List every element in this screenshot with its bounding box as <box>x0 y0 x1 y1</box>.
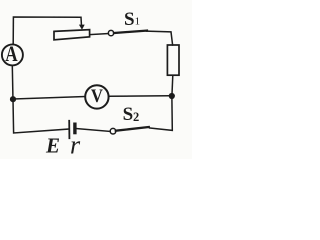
svg-text:E: E <box>45 133 60 157</box>
svg-text:S: S <box>123 104 134 125</box>
rheostat slider arrowhead <box>79 25 85 30</box>
wire voltmeter to node B <box>109 95 169 98</box>
wire top run: left riser, top wire, slider drop <box>13 17 81 44</box>
wire rheostat to S1 <box>90 34 109 35</box>
svg-text:S: S <box>124 9 135 30</box>
wire node B down right rail to bottom-right corner, left to S2 blade <box>150 99 173 131</box>
switch S2 contact <box>110 128 116 134</box>
switch S1 contact <box>108 30 113 35</box>
node A junction dot <box>10 96 16 102</box>
svg-text:V: V <box>91 85 103 106</box>
svg-text:A: A <box>5 42 18 67</box>
resistor R2 <box>167 45 179 75</box>
wire S2 to battery short plate <box>77 129 111 132</box>
wire node A up to ammeter <box>11 65 14 96</box>
wire resistor to node B <box>171 75 174 94</box>
ammeter A1 body <box>2 44 23 65</box>
svg-text:1: 1 <box>135 15 141 27</box>
wire battery to bottom-left corner and up to node A <box>13 100 68 134</box>
wire S1 to top-right corner, down to resistor <box>147 31 173 45</box>
switch S2 blade <box>116 127 149 131</box>
rheostat R1 body <box>54 30 90 40</box>
node B junction dot <box>169 93 175 99</box>
wire node A to voltmeter <box>14 97 86 100</box>
voltmeter V1 body <box>85 85 108 108</box>
svg-text:2: 2 <box>133 110 139 124</box>
switch S1 blade <box>114 31 147 33</box>
battery short plate (-) <box>73 124 76 132</box>
svg-text:r: r <box>70 131 81 159</box>
battery long plate (+) <box>68 121 70 138</box>
